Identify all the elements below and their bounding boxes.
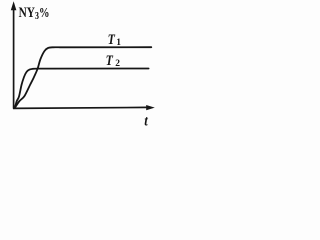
svg-text:T: T xyxy=(108,31,116,47)
x-axis xyxy=(13,107,147,108)
svg-text:2: 2 xyxy=(115,59,120,69)
label t (x-axis) xyxy=(144,114,149,130)
curve T2 (sigmoid, fast, low plateau) xyxy=(15,69,149,108)
label NY3% (y-axis) xyxy=(19,4,50,23)
y-axis xyxy=(13,7,15,109)
x-axis arrowhead xyxy=(146,105,155,110)
svg-text:NY3%: NY3% xyxy=(19,4,50,23)
curve T1 (sigmoid, high plateau) xyxy=(15,47,151,107)
y-axis arrowhead xyxy=(11,1,17,10)
label T1 xyxy=(108,31,116,47)
svg-text:1: 1 xyxy=(116,38,121,48)
svg-text:T: T xyxy=(106,52,114,68)
label T2 xyxy=(106,52,114,68)
